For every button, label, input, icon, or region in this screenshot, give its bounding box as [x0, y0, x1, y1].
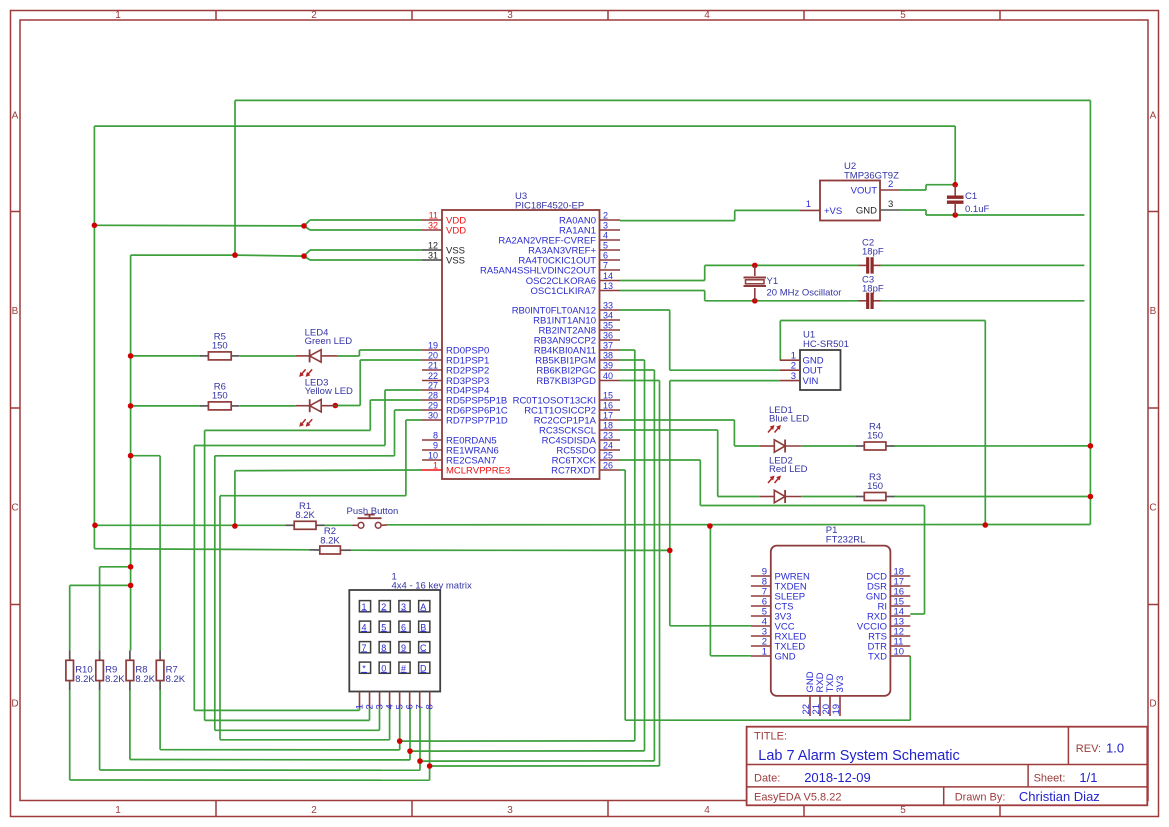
svg-text:2: 2 [791, 361, 796, 372]
svg-text:150: 150 [867, 431, 883, 442]
svg-text:1: 1 [115, 805, 121, 816]
svg-text:EasyEDA V5.8.22: EasyEDA V5.8.22 [754, 792, 841, 804]
svg-text:VDD: VDD [446, 226, 466, 237]
svg-text:29: 29 [428, 401, 438, 411]
svg-text:RD2PSP2: RD2PSP2 [446, 366, 489, 377]
svg-text:4: 4 [603, 231, 608, 241]
svg-text:C: C [11, 503, 18, 514]
svg-text:18pF: 18pF [862, 284, 884, 295]
svg-text:12: 12 [428, 241, 438, 251]
svg-text:2: 2 [603, 211, 608, 221]
svg-text:C: C [1149, 503, 1156, 514]
svg-text:40: 40 [603, 371, 613, 381]
svg-text:TITLE:: TITLE: [754, 731, 787, 743]
svg-text:2: 2 [311, 805, 317, 816]
svg-text:1: 1 [433, 461, 438, 471]
svg-text:MCLRVPPRE3: MCLRVPPRE3 [446, 466, 510, 477]
svg-text:Lab 7 Alarm System Schematic: Lab 7 Alarm System Schematic [758, 748, 959, 764]
svg-text:33: 33 [603, 301, 613, 311]
svg-text:28: 28 [428, 391, 438, 401]
svg-text:20: 20 [428, 351, 438, 361]
svg-text:Push Button: Push Button [347, 506, 399, 517]
svg-text:4: 4 [704, 10, 710, 21]
svg-text:RA5AN4SSHLVDINC2OUT: RA5AN4SSHLVDINC2OUT [480, 266, 596, 277]
svg-text:20 MHz Oscillator: 20 MHz Oscillator [767, 288, 842, 299]
svg-text:C1: C1 [965, 191, 977, 202]
svg-text:VIN: VIN [803, 376, 819, 387]
svg-text:34: 34 [603, 311, 613, 321]
svg-text:HC-SR501: HC-SR501 [803, 339, 849, 350]
svg-text:8.2K: 8.2K [75, 674, 95, 685]
svg-text:GND: GND [775, 652, 796, 663]
svg-text:GND: GND [856, 206, 877, 217]
svg-text:37: 37 [603, 341, 613, 351]
svg-text:1/1: 1/1 [1079, 770, 1097, 785]
svg-text:22: 22 [428, 371, 438, 381]
svg-text:150: 150 [212, 340, 228, 351]
svg-text:B: B [1150, 306, 1157, 317]
svg-text:3: 3 [603, 221, 608, 231]
svg-text:8.2K: 8.2K [166, 674, 186, 685]
svg-text:2: 2 [888, 179, 893, 190]
svg-text:32: 32 [428, 221, 438, 231]
svg-text:RC7RXDT: RC7RXDT [551, 466, 596, 477]
svg-text:Drawn By:: Drawn By: [955, 792, 1006, 804]
svg-text:31: 31 [428, 251, 438, 261]
svg-text:39: 39 [603, 361, 613, 371]
svg-text:4: 4 [704, 805, 710, 816]
svg-text:1.0: 1.0 [1106, 741, 1124, 756]
svg-text:5: 5 [900, 805, 906, 816]
svg-text:18pF: 18pF [862, 246, 884, 257]
svg-text:24: 24 [603, 441, 613, 451]
svg-text:D: D [1149, 699, 1156, 710]
svg-text:RB6KBI2PGC: RB6KBI2PGC [536, 366, 596, 377]
svg-text:Y1: Y1 [767, 276, 779, 287]
svg-text:Christian Diaz: Christian Diaz [1019, 789, 1100, 804]
svg-text:17: 17 [603, 411, 613, 421]
svg-text:A: A [1150, 111, 1157, 122]
svg-text:19: 19 [831, 704, 842, 715]
svg-text:Red LED: Red LED [769, 464, 808, 475]
svg-text:21: 21 [428, 361, 438, 371]
svg-text:25: 25 [603, 451, 613, 461]
svg-text:3: 3 [888, 199, 893, 210]
svg-text:3: 3 [507, 10, 513, 21]
svg-text:Green LED: Green LED [305, 336, 353, 347]
svg-text:1: 1 [115, 10, 121, 21]
svg-text:11: 11 [429, 211, 438, 221]
svg-text:10: 10 [428, 451, 438, 461]
svg-text:36: 36 [603, 331, 613, 341]
svg-text:Yellow LED: Yellow LED [305, 386, 353, 397]
svg-text:3: 3 [791, 371, 796, 382]
svg-text:35: 35 [603, 321, 613, 331]
svg-text:27: 27 [428, 381, 438, 391]
svg-text:PIC18F4520-EP: PIC18F4520-EP [515, 201, 584, 212]
svg-text:D: D [11, 699, 18, 710]
svg-text:3: 3 [507, 805, 513, 816]
svg-text:8: 8 [433, 431, 438, 441]
svg-text:2: 2 [311, 10, 317, 21]
svg-text:TXD: TXD [868, 652, 887, 663]
svg-text:1: 1 [762, 647, 767, 658]
svg-text:Blue LED: Blue LED [769, 414, 809, 425]
svg-text:8.2K: 8.2K [105, 674, 125, 685]
svg-text:VOUT: VOUT [851, 186, 878, 197]
svg-text:Date:: Date: [754, 773, 780, 785]
svg-text:14: 14 [603, 271, 613, 281]
svg-text:150: 150 [212, 390, 228, 401]
svg-text:8.2K: 8.2K [135, 674, 155, 685]
svg-text:13: 13 [603, 281, 613, 291]
svg-text:8.2K: 8.2K [320, 536, 340, 547]
svg-text:9: 9 [433, 441, 438, 451]
svg-text:6: 6 [603, 251, 608, 261]
svg-text:10: 10 [894, 647, 905, 658]
svg-text:18: 18 [603, 421, 613, 431]
svg-text:RD7PSP7P1D: RD7PSP7P1D [446, 416, 508, 427]
svg-text:RB7KBI3PGD: RB7KBI3PGD [536, 376, 596, 387]
svg-text:OUT: OUT [803, 366, 823, 377]
svg-text:REV:: REV: [1076, 743, 1101, 755]
svg-text:16: 16 [603, 401, 613, 411]
svg-text:23: 23 [603, 431, 613, 441]
svg-text:15: 15 [603, 391, 613, 401]
svg-text:150: 150 [867, 481, 883, 492]
svg-text:8.2K: 8.2K [295, 510, 315, 521]
svg-text:19: 19 [428, 341, 438, 351]
svg-text:8: 8 [425, 704, 436, 709]
svg-text:38: 38 [603, 351, 613, 361]
svg-text:Sheet:: Sheet: [1034, 773, 1066, 785]
svg-text:OSC1CLKIRA7: OSC1CLKIRA7 [531, 286, 596, 297]
svg-text:1: 1 [806, 199, 811, 210]
svg-text:5: 5 [603, 241, 608, 251]
svg-text:VSS: VSS [446, 256, 465, 267]
svg-text:B: B [12, 306, 19, 317]
svg-text:0.1uF: 0.1uF [965, 204, 989, 215]
svg-text:A: A [12, 111, 19, 122]
svg-text:26: 26 [603, 461, 613, 471]
svg-text:4x4 - 16 key matrix: 4x4 - 16 key matrix [392, 581, 472, 592]
svg-text:3V3: 3V3 [835, 676, 846, 693]
svg-text:30: 30 [428, 411, 438, 421]
svg-text:5: 5 [900, 10, 906, 21]
svg-text:7: 7 [603, 261, 608, 271]
svg-text:FT232RL: FT232RL [826, 535, 866, 546]
svg-text:+VS: +VS [824, 206, 842, 217]
svg-text:2018-12-09: 2018-12-09 [804, 770, 871, 785]
